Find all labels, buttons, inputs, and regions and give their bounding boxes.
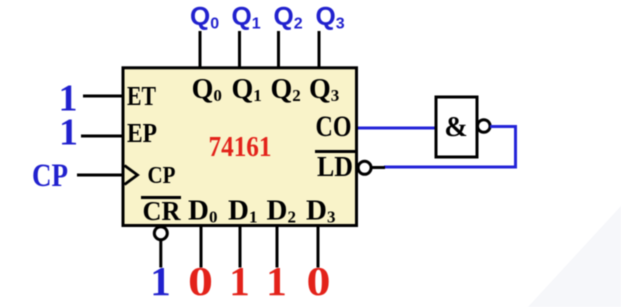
wire Q0 top pin <box>199 31 202 68</box>
wire D3 input <box>317 227 320 268</box>
svg-text:LD: LD <box>317 151 353 183</box>
wire CP input <box>77 174 123 177</box>
svg-text:ET: ET <box>127 81 156 111</box>
svg-text:1: 1 <box>150 258 171 304</box>
NAND output bubble <box>478 120 491 133</box>
wire CO to NAND input <box>358 127 436 130</box>
svg-text:CP: CP <box>148 163 176 189</box>
svg-text:CP: CP <box>32 158 68 194</box>
wire D0 input <box>200 227 203 268</box>
CR inversion bubble <box>154 227 167 240</box>
svg-text:CO: CO <box>316 110 352 143</box>
wire Q2 top pin <box>277 31 280 68</box>
wire Q1 top pin <box>238 31 241 68</box>
wire D2 input <box>276 227 279 268</box>
IC body 74161 <box>123 68 357 226</box>
svg-text:0: 0 <box>188 258 213 304</box>
LD inversion bubble <box>358 161 371 174</box>
wire ET input <box>83 95 123 98</box>
wire EP input <box>81 135 123 138</box>
wire Q3 top pin <box>318 31 321 68</box>
wire D1 input <box>239 227 242 268</box>
svg-text:0: 0 <box>307 258 331 304</box>
svg-text:&: & <box>444 112 467 143</box>
svg-text:EP: EP <box>127 118 157 148</box>
svg-text:CR: CR <box>143 196 181 226</box>
svg-text:1: 1 <box>266 258 287 304</box>
NAND gate U1 <box>436 97 477 157</box>
svg-text:74161: 74161 <box>209 131 272 163</box>
svg-text:1: 1 <box>229 258 250 304</box>
wire CR input <box>159 240 162 268</box>
clock edge triangle <box>125 166 138 185</box>
wire NAND output feedback to LD <box>384 127 516 168</box>
svg-text:1: 1 <box>59 112 78 154</box>
wire LD stub <box>371 166 385 169</box>
